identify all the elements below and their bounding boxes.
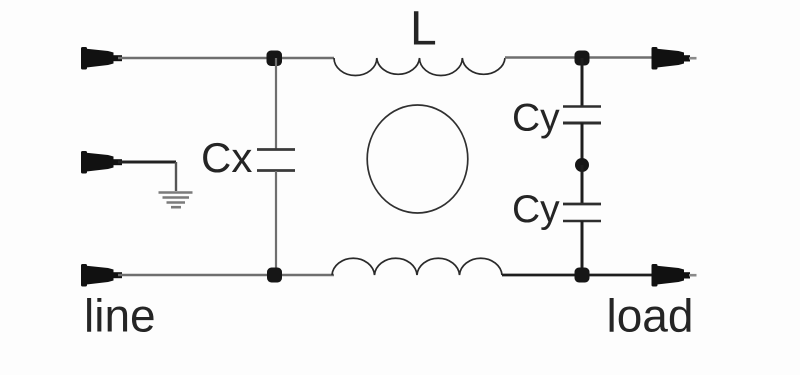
wire between Cy caps upper bbox=[581, 123, 584, 165]
wire top rail right segment bbox=[505, 56, 652, 58]
wire ground lead vertical bbox=[175, 162, 177, 191]
svg-text:L: L bbox=[410, 3, 437, 56]
node junction bottom-right bbox=[575, 268, 590, 283]
svg-text:Cy: Cy bbox=[512, 97, 560, 140]
terminal arrow line-in bottom-left bbox=[81, 264, 122, 287]
core circle (common-mode choke core) bbox=[367, 105, 468, 213]
svg-text:Cx: Cx bbox=[201, 134, 252, 181]
wire top rail left segment bbox=[118, 57, 334, 59]
ground symbol bbox=[159, 193, 193, 208]
wire Cy branch top bbox=[581, 58, 584, 106]
svg-text:line: line bbox=[84, 290, 156, 342]
wire Cx branch upper bbox=[275, 58, 277, 149]
node junction mid Cy bbox=[575, 158, 589, 172]
wire between Cy caps lower bbox=[581, 165, 584, 204]
svg-text:load: load bbox=[607, 290, 694, 342]
terminal arrow load top-right bbox=[652, 47, 697, 70]
wire bottom rail left segment bbox=[118, 274, 334, 276]
capacitor Cy lower plates bbox=[563, 204, 601, 221]
terminal arrow load bottom-right bbox=[652, 264, 697, 287]
svg-text:Cy: Cy bbox=[512, 188, 560, 231]
inductor L top winding bbox=[334, 58, 505, 76]
wire Cy branch bottom bbox=[581, 221, 584, 275]
node junction top-right bbox=[575, 51, 590, 66]
node junction top-left bbox=[267, 51, 283, 67]
terminal arrow ground middle-left bbox=[81, 151, 122, 174]
wire Cx branch lower bbox=[275, 171, 277, 275]
terminal arrow line-in top-left bbox=[81, 47, 122, 70]
capacitor Cx plates bbox=[257, 150, 295, 171]
capacitor Cy upper plates bbox=[563, 107, 601, 124]
wire bottom rail right segment bbox=[502, 274, 652, 277]
node junction bottom-left bbox=[267, 268, 282, 283]
wire ground lead horizontal bbox=[118, 161, 176, 164]
inductor L bottom winding bbox=[332, 258, 502, 275]
